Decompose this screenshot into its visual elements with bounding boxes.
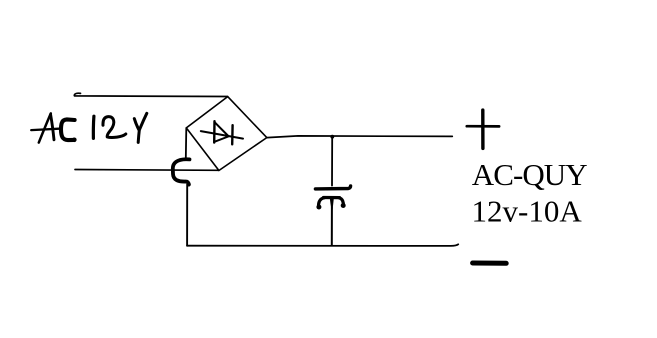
bridge rectifier (diamond) bbox=[186, 97, 266, 171]
label AC-QUY bbox=[472, 157, 587, 192]
minus terminal bbox=[473, 261, 507, 266]
plus terminal bbox=[467, 110, 499, 148]
svg-text:AC-QUY: AC-QUY bbox=[472, 157, 587, 192]
wire squiggle to bottom rail bbox=[186, 185, 188, 246]
label 12v-10A bbox=[472, 194, 583, 229]
wire top AC input bbox=[74, 93, 227, 96]
AC source squiggle (thick hook) bbox=[173, 159, 191, 186]
wire bottom AC input bbox=[75, 169, 219, 172]
wire positive rail bbox=[267, 136, 452, 138]
wire left vertex to squiggle bbox=[185, 128, 188, 159]
capacitor C (polarized) bbox=[315, 137, 350, 245]
node junction on positive rail bbox=[330, 135, 334, 139]
label AC 12V (handwritten) bbox=[31, 113, 147, 142]
wire negative rail bbox=[187, 244, 458, 246]
svg-text:12v-10A: 12v-10A bbox=[472, 194, 583, 229]
diode inside bridge bbox=[201, 121, 243, 144]
